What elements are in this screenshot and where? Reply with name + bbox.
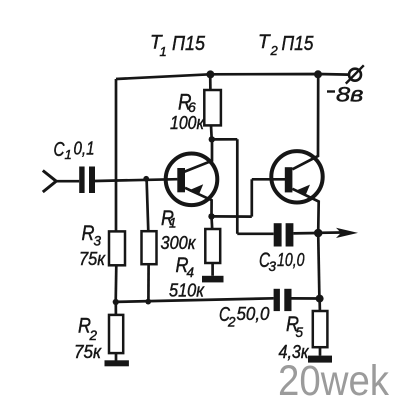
- transistor Q1 emitter arrow: [188, 184, 203, 195]
- resistor R2: [109, 315, 123, 353]
- power terminal circle: [349, 69, 361, 81]
- power terminal slash: [346, 65, 364, 83]
- svg-text:П15: П15: [282, 33, 315, 55]
- label R2 75k: [74, 315, 102, 363]
- svg-text:4: 4: [187, 265, 195, 280]
- svg-text:10,0: 10,0: [277, 250, 305, 270]
- svg-text:2: 2: [89, 328, 98, 343]
- wire C2 to R5 node: [292, 297, 320, 300]
- node output junction: [314, 229, 323, 238]
- svg-text:0,1: 0,1: [74, 139, 95, 159]
- node supply junction: [314, 70, 322, 78]
- wire R2 bottom: [115, 353, 118, 360]
- node R6 top junction: [206, 70, 214, 78]
- wire input to C1: [55, 180, 79, 183]
- transistor Q2 collector lead: [292, 74, 318, 169]
- wire top supply rail: [116, 74, 349, 79]
- resistor R1: [142, 231, 157, 264]
- svg-text:20wek: 20wek: [278, 357, 389, 403]
- svg-text:2: 2: [227, 315, 236, 330]
- resistor R4: [205, 229, 220, 263]
- wire R4 top: [210, 216, 213, 229]
- node divider junction: [113, 299, 119, 305]
- transistor Q1 base bar: [177, 168, 185, 192]
- label C2 50,0: [219, 304, 270, 330]
- wire T1 emitter node horizontal: [212, 215, 252, 218]
- wire R5 bottom: [319, 347, 322, 355]
- label C1 0,1: [54, 139, 95, 163]
- label T2: [258, 32, 314, 58]
- transistor Q2 base bar: [285, 167, 293, 192]
- capacitor C3: [274, 223, 282, 246]
- svg-text:С: С: [54, 139, 65, 161]
- svg-text:1: 1: [160, 44, 167, 59]
- svg-text:8в: 8в: [336, 84, 364, 107]
- resistor R6: [204, 90, 221, 125]
- wire output node down: [318, 233, 319, 299]
- wire R1 bottom: [147, 264, 150, 302]
- wire C3 to output node: [293, 232, 318, 235]
- wire T2 base horizontal: [252, 178, 285, 181]
- svg-text:75к: 75к: [74, 342, 102, 362]
- ground under R2: [105, 360, 129, 366]
- label R5 4,3k: [279, 313, 310, 362]
- label R3 75k: [79, 222, 106, 269]
- svg-text:75к: 75к: [79, 249, 106, 269]
- wire R5 top: [318, 299, 321, 311]
- node C2 R5 junction: [316, 295, 324, 303]
- wire node X vertical: [236, 139, 239, 234]
- wire C1 to T1 base: [95, 179, 177, 181]
- svg-text:5: 5: [296, 325, 304, 340]
- ground under R5: [308, 356, 332, 363]
- node T1 collector junction: [209, 136, 215, 142]
- transistor Q1 circle: [166, 154, 218, 206]
- wire T2 base vertical: [250, 179, 253, 216]
- wire to C3: [237, 232, 273, 235]
- wire R4 bottom: [211, 263, 214, 276]
- transistor Q2 circle: [271, 151, 322, 202]
- svg-text:П15: П15: [172, 33, 206, 55]
- wire R1 top: [147, 179, 149, 231]
- resistor R3: [109, 231, 125, 265]
- node T1 emitter junction: [208, 213, 214, 219]
- label R4 510k: [169, 254, 205, 301]
- input terminal fork: [43, 171, 56, 193]
- output arrow: [318, 231, 341, 234]
- wire R3 bottom: [114, 265, 117, 302]
- capacitor C1: [79, 167, 84, 194]
- svg-text:50,0: 50,0: [237, 304, 270, 324]
- label C3 10,0: [259, 249, 305, 274]
- svg-text:3: 3: [94, 234, 102, 249]
- label R6 100k: [170, 90, 205, 134]
- svg-text:100к: 100к: [170, 113, 205, 133]
- svg-text:510к: 510к: [169, 281, 205, 301]
- label -8v: [327, 84, 364, 107]
- ground under R4: [202, 276, 224, 283]
- transistor Q2 emitter arrow: [295, 185, 310, 196]
- svg-text:1: 1: [169, 216, 177, 231]
- transistor Q1 collector lead: [184, 140, 212, 172]
- svg-text:2: 2: [270, 43, 279, 58]
- transistor Q1 emitter lead: [185, 188, 212, 217]
- wire R6 top: [209, 74, 212, 90]
- wire R6 bottom: [210, 125, 213, 139]
- svg-text:1: 1: [65, 147, 72, 162]
- resistor R5: [313, 311, 328, 347]
- node R1 bottom junction: [145, 299, 151, 305]
- capacitor C2: [274, 289, 280, 311]
- wire node X horizontal: [212, 138, 238, 141]
- wire R2 top: [114, 302, 117, 315]
- node base junction: [143, 176, 149, 182]
- wire divider node horizontal: [116, 298, 274, 302]
- label R1 300k: [161, 207, 197, 253]
- transistor Q2 emitter lead: [292, 189, 318, 233]
- svg-text:300к: 300к: [161, 233, 197, 253]
- svg-text:Т: Т: [258, 32, 271, 53]
- label T1: [150, 33, 206, 60]
- svg-text:3: 3: [269, 259, 277, 274]
- wire left column R3 top: [115, 79, 118, 231]
